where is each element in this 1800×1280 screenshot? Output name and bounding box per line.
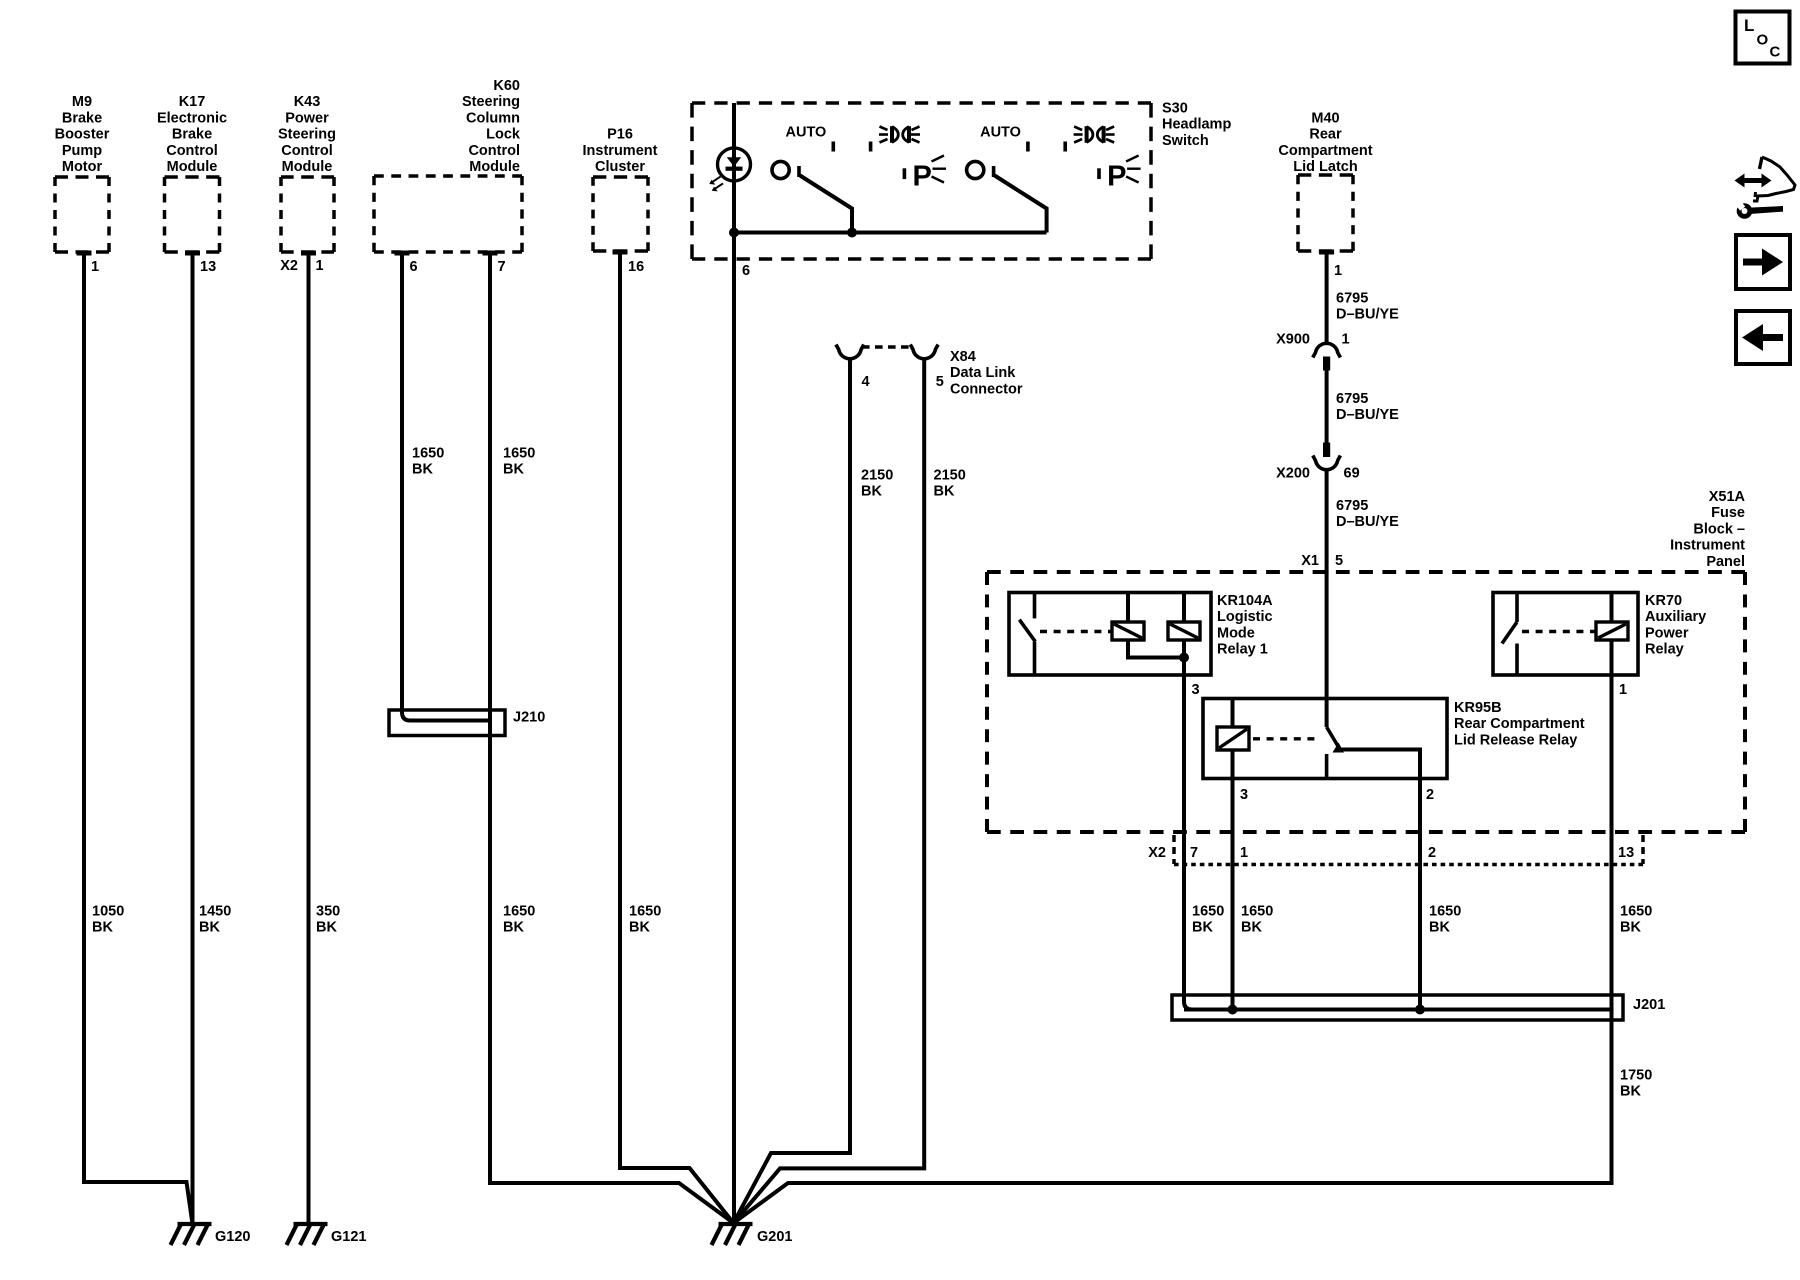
KR95B coil feed wire — [1231, 699, 1235, 728]
pin 16 of P16 — [613, 250, 628, 255]
KR104A coil2 feed wire — [1182, 593, 1186, 623]
svg-text:3: 3 — [1192, 682, 1200, 698]
pin 1 of M40 — [1319, 250, 1334, 255]
KR104A actuation dashed link — [1040, 630, 1112, 633]
wire K60-6 to splice J210 (1650 BK) — [402, 253, 488, 721]
svg-text:X900: X900 — [1276, 332, 1310, 348]
KR95B contact line to pin 2 — [1340, 750, 1420, 779]
S30 wiper blade (group 1) — [800, 176, 852, 233]
wire K43-1 to G121 (350 BK) — [307, 253, 311, 1224]
KR104A switch lower stub — [1033, 642, 1037, 675]
svg-text:2: 2 — [1428, 845, 1436, 861]
component M40 Rear Compartment Lid Latch — [1298, 175, 1353, 251]
S30 position tick before P (group 1) — [903, 168, 907, 179]
pin 7 of K60 — [483, 251, 498, 256]
KR70 switch fixed contact stub — [1515, 593, 1519, 623]
connector X84 pin 5 — [910, 345, 938, 359]
connector X2 of X51A fuse block — [1172, 835, 1176, 864]
relay KR104A Logistic Mode Relay 1 — [1009, 593, 1211, 676]
KR95B switch lower stub — [1325, 754, 1329, 779]
svg-text:X2: X2 — [280, 258, 298, 274]
svg-text:5: 5 — [936, 374, 944, 390]
svg-text:69: 69 — [1344, 466, 1360, 482]
wire M40-1 to X900 (6795 D-BU/YE) — [1325, 252, 1329, 345]
wire X84-4 to G201 (2150 BK) — [734, 360, 851, 1223]
wire KR104A-3 to X2-7 / J201 (1650 BK) — [1184, 640, 1192, 1010]
splice pack J201 — [1172, 995, 1623, 1020]
KR104A switch blade — [1019, 620, 1035, 642]
component P16 Instrument Cluster — [593, 177, 648, 251]
svg-text:L: L — [1744, 16, 1754, 35]
svg-text:P: P — [913, 161, 932, 193]
S30 position tick under AUTO (group 2) — [1026, 142, 1030, 152]
J201 internal bus — [1184, 1008, 1612, 1012]
svg-text:350BK: 350BK — [316, 904, 340, 936]
S30 position tick (group 2) — [992, 166, 996, 177]
headlamp icon (group 2) — [1074, 126, 1115, 143]
svg-text:6: 6 — [742, 263, 750, 279]
svg-text:O: O — [1757, 32, 1769, 49]
X84 connector dashed link — [862, 345, 912, 348]
junction node J201/KR95B-3 — [1228, 1005, 1238, 1015]
wrench part of icon — [1737, 203, 1753, 219]
svg-text:1: 1 — [1334, 263, 1342, 279]
connector X84 pin 4 — [836, 345, 864, 359]
S30 position tick before P (group 2) — [1097, 168, 1101, 179]
KR70 switch blade — [1502, 622, 1517, 644]
back navigation arrow box — [1736, 311, 1790, 364]
junction node bus/wiper1 — [847, 228, 857, 238]
wire K17-13 to G120 (1450 BK) — [191, 253, 195, 1224]
component X51A Fuse Block - Instrument Panel — [987, 572, 1745, 832]
svg-text:1: 1 — [1342, 332, 1350, 348]
component K60 Steering Column Lock Control Module — [374, 176, 522, 252]
svg-text:G201: G201 — [757, 1229, 792, 1245]
svg-text:5: 5 — [1335, 553, 1343, 569]
KR104A coil 1 — [1112, 622, 1144, 640]
svg-text:4: 4 — [862, 374, 870, 390]
wire S30 internal vertical / pin 6 to G201 (1650 BK) — [732, 103, 736, 1223]
junction node on bus — [729, 228, 739, 238]
svg-text:13: 13 — [200, 259, 216, 275]
KR95B coil — [1217, 727, 1249, 750]
svg-text:3: 3 — [1240, 787, 1248, 803]
KR70 switch lower stub — [1515, 644, 1519, 676]
S30 switch position circle OFF (group 1) — [772, 161, 789, 178]
svg-text:P: P — [1107, 161, 1126, 193]
S30 position tick under AUTO (group 1) — [832, 142, 836, 152]
wire X900 to X200 (6795 D-BU/YE) — [1325, 370, 1329, 443]
vehicle location icon (car outline, double arrow, wrench) — [1753, 157, 1795, 201]
wire X84-5 to G201 (2150 BK) — [734, 360, 925, 1223]
svg-text:7: 7 — [498, 259, 506, 275]
svg-text:AUTO: AUTO — [786, 125, 827, 141]
splice pack J210 — [389, 710, 505, 736]
component S30 Headlamp Switch — [692, 103, 1151, 259]
S30 position tick (group 1) — [797, 166, 801, 177]
svg-text:AUTO: AUTO — [980, 125, 1021, 141]
junction node J201/KR95B-2 — [1415, 1005, 1425, 1015]
KR95B switch blade with arrow tip — [1327, 727, 1340, 750]
svg-text:X2: X2 — [1148, 845, 1166, 861]
KR104A coil1 return wire — [1128, 640, 1184, 658]
inline connector X900 pin 1 — [1313, 343, 1341, 357]
wire M9-1 to G120 (1050 BK) — [84, 253, 193, 1224]
pin 6 of K60 — [395, 251, 410, 256]
KR70 coil feed wire — [1610, 593, 1614, 623]
forward navigation arrow box — [1736, 235, 1790, 289]
svg-text:X200: X200 — [1276, 466, 1310, 482]
relay KR95B Rear Compartment Lid Release Relay — [1203, 699, 1447, 779]
pin X2-1 of K43 — [301, 251, 316, 256]
svg-text:J201: J201 — [1633, 997, 1665, 1013]
S30 internal bus wire — [734, 231, 1047, 235]
relay KR70 Auxiliary Power Relay — [1493, 593, 1638, 676]
svg-text:16: 16 — [628, 259, 644, 275]
svg-text:X1: X1 — [1301, 553, 1319, 569]
photocell LED D1 inside S30 — [718, 148, 751, 181]
wire KR95B-3 to X2-1 / J201 (1650 BK) — [1231, 750, 1235, 1010]
component K17 Electronic Brake Control Module — [165, 177, 220, 252]
KR95B actuation dashed link — [1253, 737, 1320, 740]
headlamp icon (group 1) — [879, 126, 920, 143]
svg-text:1: 1 — [91, 259, 99, 275]
wire P16-16 to G201 (1650 BK) — [620, 252, 734, 1223]
component M9 Brake Booster Pump Motor — [55, 177, 109, 252]
svg-text:1: 1 — [1240, 845, 1248, 861]
junction node coil returns — [1179, 653, 1189, 663]
ground G201 — [712, 1224, 753, 1245]
ground G120 — [171, 1224, 212, 1245]
svg-text:1: 1 — [1619, 682, 1627, 698]
svg-text:6: 6 — [410, 259, 418, 275]
svg-text:G120: G120 — [215, 1229, 250, 1245]
component K43 Power Steering Control Module — [281, 177, 334, 252]
KR104A coil1 feed wire — [1126, 593, 1130, 623]
KR70 actuation dashed link — [1522, 630, 1596, 633]
wire X200 to X51A X1-5 (6795 D-BU/YE) — [1325, 471, 1329, 727]
wire KR70-1 to X2-13 / J201 / G201 (1650 BK, 1750 BK) — [734, 640, 1612, 1223]
wire K60-7 through J210 to G201 (1650 BK) — [490, 253, 734, 1223]
svg-text:J210: J210 — [513, 710, 545, 726]
svg-text:1: 1 — [316, 258, 324, 274]
KR104A coil 2 — [1168, 622, 1200, 640]
svg-text:2: 2 — [1426, 787, 1434, 803]
svg-text:7: 7 — [1190, 845, 1198, 861]
KR70 coil — [1596, 622, 1628, 640]
wire KR95B-2 to X2-2 / J201 (1650 BK) — [1418, 779, 1422, 1010]
svg-text:C: C — [1770, 44, 1781, 61]
KR104A switch fixed contact stub — [1033, 593, 1037, 619]
svg-text:13: 13 — [1618, 845, 1634, 861]
pin 1 of M9 — [77, 251, 92, 256]
pin 13 of K17 — [185, 251, 200, 256]
LOC navigation box — [1736, 12, 1790, 64]
S30 position tick (group 2) — [1063, 142, 1067, 152]
S30 position tick (group 1) — [869, 142, 873, 152]
S30 switch position circle OFF (group 2) — [967, 161, 984, 178]
ground G121 — [287, 1224, 328, 1245]
S30 wiper blade (group 2) — [995, 176, 1047, 233]
svg-text:G121: G121 — [331, 1229, 366, 1245]
inline connector X200 pin 69 — [1323, 443, 1330, 458]
